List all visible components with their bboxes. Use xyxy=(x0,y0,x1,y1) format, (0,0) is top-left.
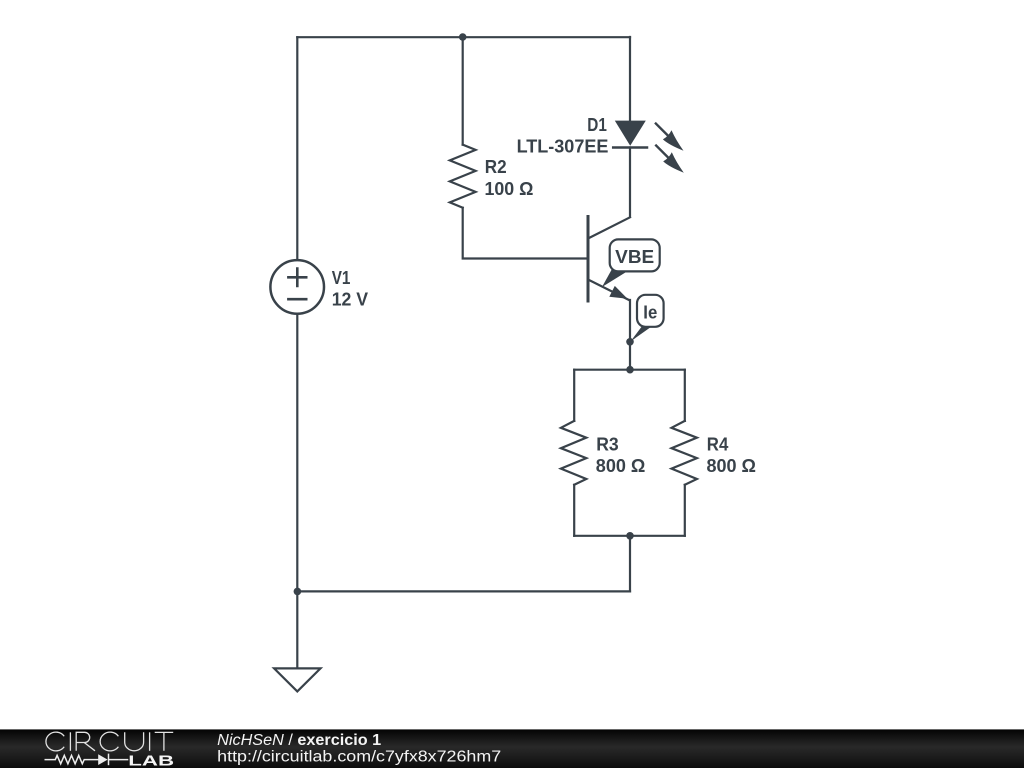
svg-text:http://circuitlab.com/c7yfx8x7: http://circuitlab.com/c7yfx8x726hm7 xyxy=(217,749,501,766)
svg-text:LAB: LAB xyxy=(128,753,174,768)
wire R3 bottom xyxy=(573,485,575,536)
junction node Ie xyxy=(626,338,634,346)
svg-text:800 Ω: 800 Ω xyxy=(707,456,757,476)
svg-text:12 V: 12 V xyxy=(332,289,368,309)
logo letter C1 xyxy=(46,732,64,751)
wire bottom rail xyxy=(297,590,630,592)
logo squiggle wire xyxy=(45,754,129,766)
footer bar xyxy=(0,729,1024,768)
junction node parallel bottom xyxy=(626,532,634,540)
logo letter T xyxy=(155,732,174,750)
svg-text:R2: R2 xyxy=(485,157,507,177)
LED D1 cathode bar xyxy=(613,146,647,149)
logo letter I2 xyxy=(149,732,151,751)
wire R2 bottom to base xyxy=(463,208,587,259)
LED light arrow 1 xyxy=(655,123,684,151)
wire emitter down xyxy=(629,300,631,370)
transistor Q1 emitter diagonal xyxy=(588,280,630,301)
svg-text:800 Ω: 800 Ω xyxy=(596,456,646,476)
wire R2 top xyxy=(462,37,464,145)
LED D1 triangle xyxy=(615,121,646,146)
logo letter C2 xyxy=(100,732,118,751)
wire to ground xyxy=(296,591,298,668)
svg-text:VBE: VBE xyxy=(615,247,654,267)
svg-text:R3: R3 xyxy=(596,434,619,454)
wire V1 top xyxy=(296,37,298,259)
svg-text:LTL-307EE: LTL-307EE xyxy=(517,136,609,156)
wire parallel to bottom rail xyxy=(629,536,631,592)
wire LED cathode to collector xyxy=(629,148,631,217)
transistor Q1 collector diagonal xyxy=(588,217,630,238)
transistor Q1 emitter arrowhead xyxy=(609,286,627,299)
resistor R2 xyxy=(450,145,476,208)
junction node parallel top xyxy=(626,366,634,374)
svg-text:Ie: Ie xyxy=(643,303,657,323)
wire V1 bottom xyxy=(296,315,298,592)
wire parallel top rail xyxy=(574,369,685,371)
logo letter U xyxy=(125,732,144,751)
probe balloon Ie xyxy=(631,295,664,342)
logo letter I1 xyxy=(69,732,71,751)
LED light arrow 2 xyxy=(655,145,684,173)
logo diode xyxy=(98,754,107,765)
logo CIRCUIT letters xyxy=(46,732,173,751)
logo letter R xyxy=(76,732,95,751)
resistor R3 xyxy=(561,421,586,485)
V1 plus sign xyxy=(288,269,306,286)
ground symbol xyxy=(274,668,320,691)
wire R3 top xyxy=(573,370,575,421)
svg-text:NicHSeN / exercicio 1: NicHSeN / exercicio 1 xyxy=(217,732,381,749)
transistor Q1 base bar xyxy=(587,217,590,302)
wire top rail xyxy=(297,36,630,38)
resistor R4 xyxy=(672,421,697,485)
wire R4 bottom xyxy=(684,485,686,536)
svg-text:D1: D1 xyxy=(587,115,607,135)
svg-text:V1: V1 xyxy=(332,268,351,288)
svg-text:100 Ω: 100 Ω xyxy=(485,179,534,199)
probe balloon VBE xyxy=(602,239,660,287)
wire LED top xyxy=(629,37,631,121)
svg-text:R4: R4 xyxy=(707,435,729,455)
wire R4 top xyxy=(684,370,686,421)
junction node top xyxy=(459,33,467,41)
voltage source V1 circle xyxy=(270,260,324,314)
V1 minus sign xyxy=(288,298,306,301)
junction node bottom left xyxy=(294,588,302,596)
wire parallel bottom rail xyxy=(574,535,685,537)
